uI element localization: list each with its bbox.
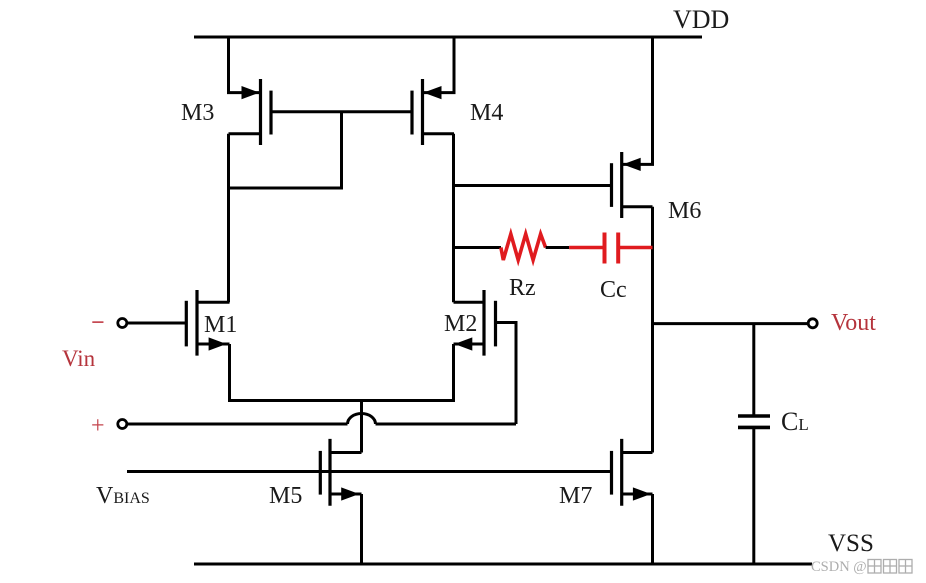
plus input terminal: [91, 413, 127, 439]
transistor M1: [186, 290, 229, 356]
svg-text:M1: M1: [204, 312, 237, 338]
wire node A to M6 gate: [454, 184, 612, 187]
wire tail down to M5 drain: [360, 401, 363, 453]
transistor M3: [229, 79, 272, 145]
svg-text:−: −: [91, 310, 105, 336]
wire node A to Rz: [454, 246, 502, 249]
wire plus terminal to M2 gate with hop: [128, 414, 517, 424]
wire M2 gate to plus line: [496, 323, 517, 425]
wire Rz to Cc: [546, 246, 570, 249]
svg-text:Cc: Cc: [600, 277, 627, 303]
svg-text:M7: M7: [559, 483, 592, 509]
wire output to CL top: [752, 324, 755, 416]
Vout terminal: [808, 319, 817, 328]
wire M1 source down to tail: [228, 344, 231, 401]
wire tail horizontal: [228, 399, 455, 402]
wire M2 source down to tail: [452, 344, 455, 401]
capacitor Cc: [569, 233, 652, 264]
transistor M4: [412, 79, 454, 145]
transistor M7: [612, 439, 653, 506]
VSS rail: [194, 563, 812, 566]
wire M5 source to VSS: [360, 494, 363, 564]
wire VDD to M6 source: [622, 36, 653, 165]
svg-text:M3: M3: [181, 100, 214, 126]
svg-text:Rz: Rz: [509, 275, 536, 301]
svg-text:M5: M5: [269, 483, 302, 509]
transistor M2: [454, 290, 496, 356]
watermark CSDN: [811, 559, 912, 575]
wire VBIAS to gates of M5 and M7: [127, 470, 612, 473]
wire M7 source to VSS: [651, 494, 654, 564]
wire M3 gate to M4 gate: [271, 110, 412, 113]
transistor M5: [320, 439, 361, 506]
resistor Rz: [501, 234, 546, 260]
svg-text:VDD: VDD: [673, 5, 729, 34]
svg-text:VSS: VSS: [828, 530, 874, 557]
wire VDD to M3 source: [229, 36, 261, 93]
wire VDD to M4 source: [423, 36, 455, 93]
svg-text:+: +: [91, 413, 105, 439]
wire gate tie vertical: [340, 112, 343, 190]
wire M3 drain down to M1 drain: [227, 134, 230, 302]
svg-text:M2: M2: [444, 311, 477, 337]
wire M7 drain up to output node: [651, 207, 654, 453]
minus input terminal: [91, 310, 127, 336]
wire CL bottom to VSS: [752, 427, 755, 564]
wire output node to Vout terminal: [653, 322, 808, 325]
svg-text:M6: M6: [668, 198, 701, 224]
svg-text:Vin: Vin: [62, 346, 96, 371]
wire M4 drain down to M2 drain (node A): [452, 134, 455, 302]
svg-text:CSDN @: CSDN @: [811, 559, 867, 575]
wire minus terminal to M1 gate: [128, 322, 187, 325]
VDD rail: [194, 36, 702, 39]
svg-text:Vout: Vout: [831, 310, 876, 336]
transistor M6: [612, 152, 653, 218]
svg-text:M4: M4: [470, 100, 503, 126]
wire M3 gate-drain tie horizontal: [227, 187, 342, 190]
capacitor CL: [738, 416, 770, 427]
